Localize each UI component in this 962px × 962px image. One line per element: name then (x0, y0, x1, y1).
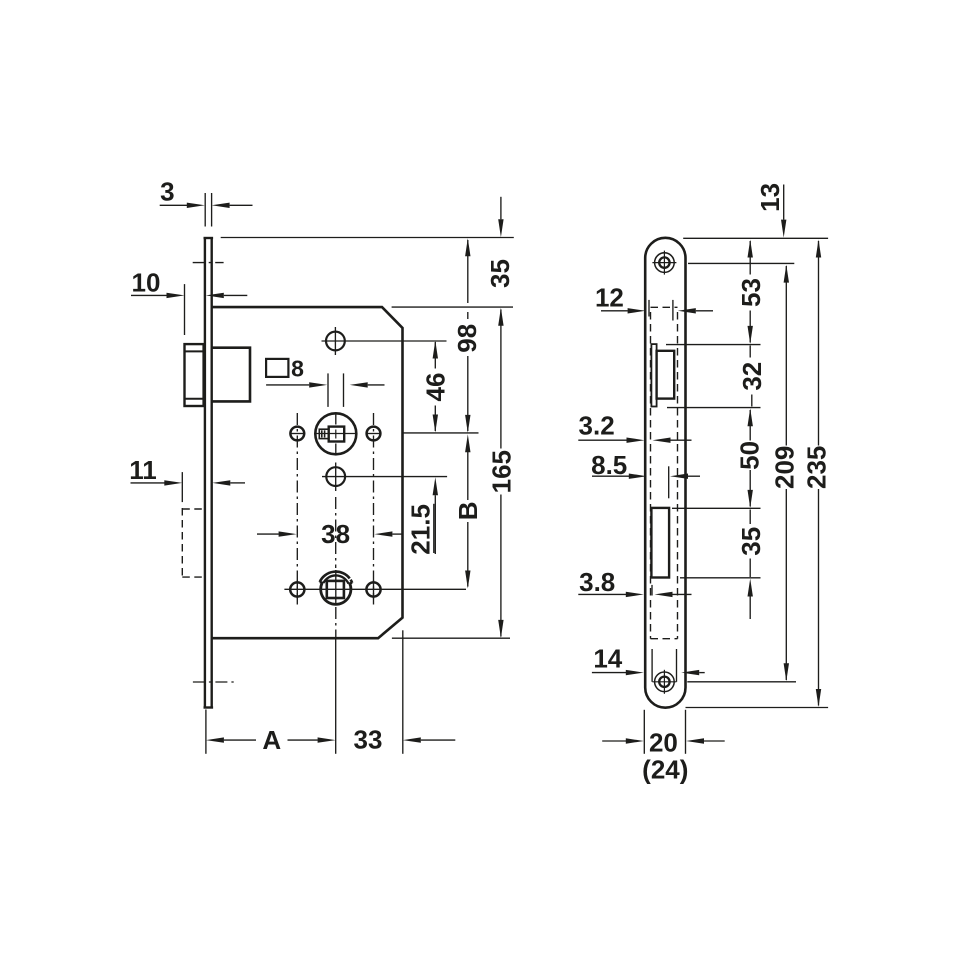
svg-text:14: 14 (593, 643, 622, 673)
svg-text:165: 165 (486, 450, 516, 493)
svg-text:98: 98 (452, 324, 482, 353)
svg-text:12: 12 (595, 282, 624, 312)
svg-text:32: 32 (737, 362, 767, 391)
svg-text:21.5: 21.5 (406, 504, 436, 555)
svg-text:3.8: 3.8 (579, 567, 615, 597)
svg-text:8: 8 (291, 356, 304, 382)
svg-text:20: 20 (649, 727, 678, 757)
svg-text:38: 38 (321, 519, 350, 549)
svg-text:35: 35 (485, 259, 515, 288)
svg-text:35: 35 (736, 527, 766, 556)
svg-text:A: A (262, 725, 281, 755)
svg-text:209: 209 (769, 446, 799, 489)
svg-text:B: B (453, 501, 483, 520)
svg-text:(24): (24) (642, 754, 688, 784)
svg-text:10: 10 (132, 267, 161, 297)
svg-text:53: 53 (736, 278, 766, 307)
svg-text:8.5: 8.5 (591, 450, 627, 480)
svg-text:33: 33 (354, 724, 383, 754)
svg-text:235: 235 (801, 446, 831, 489)
svg-text:46: 46 (420, 373, 450, 402)
svg-text:3.2: 3.2 (579, 411, 615, 441)
svg-text:11: 11 (129, 455, 157, 485)
svg-text:3: 3 (160, 176, 174, 206)
svg-text:50: 50 (734, 441, 764, 470)
svg-text:13: 13 (755, 183, 785, 212)
